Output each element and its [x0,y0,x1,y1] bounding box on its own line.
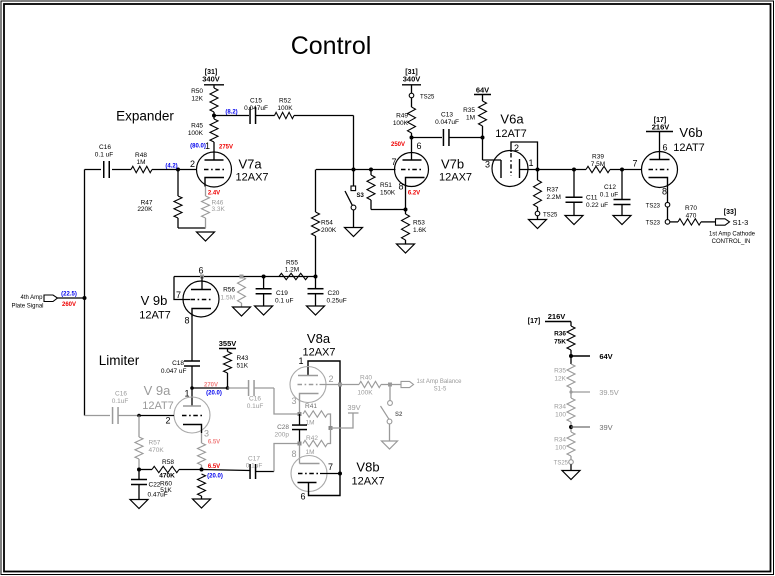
svg-text:0.1 uF: 0.1 uF [275,298,293,305]
V7b plate [403,159,422,161]
wire left rail [84,170,86,416]
node C13 R35 [481,136,485,140]
svg-text:12AT7: 12AT7 [142,400,174,412]
svg-text:V7b: V7b [441,157,464,172]
svg-text:(22.5): (22.5) [61,292,77,298]
ground ladder [562,471,580,480]
V8b grid [298,473,320,475]
svg-text:R50: R50 [191,88,203,95]
svg-text:7: 7 [391,157,396,167]
wire to V6a cathode [483,159,502,161]
node R41 C28 [298,412,302,416]
node 64V [569,354,573,358]
svg-text:12K: 12K [191,96,203,103]
node V7b plate 250V [410,136,414,140]
svg-text:C18: C18 [172,360,184,367]
svg-text:1.2M: 1.2M [285,267,299,274]
svg-text:[33]: [33] [724,209,736,216]
wire grid V9a [139,415,174,417]
svg-text:R57: R57 [149,440,161,447]
svg-text:7: 7 [632,159,637,169]
svg-text:Plate Signal: Plate Signal [11,304,43,310]
svg-text:1M: 1M [466,115,475,122]
svg-text:Control: Control [291,32,372,60]
svg-text:100K: 100K [357,390,373,397]
svg-text:V8b: V8b [356,460,379,475]
svg-text:S1-5: S1-5 [434,387,447,393]
node R57 [137,414,141,418]
svg-text:100K: 100K [188,130,204,137]
svg-text:1M: 1M [305,449,314,456]
svg-text:R70: R70 [685,205,697,212]
svg-text:R54: R54 [321,220,333,227]
node R42 loop [329,426,333,430]
svg-text:R35: R35 [554,368,566,375]
node R58 C22 [137,468,141,472]
V6b plate [650,159,670,161]
svg-text:V 9b: V 9b [141,293,168,308]
V6a cathode [500,160,502,178]
svg-text:6: 6 [662,143,667,153]
wire V6a plate to C11 [538,169,587,171]
V6a plate [519,159,521,178]
svg-text:12K: 12K [554,376,566,383]
capacitor C18 0.047uF [184,360,200,362]
resistor R37 2.2M [537,170,539,181]
V6a grid [510,153,512,176]
svg-text:0.047 uF: 0.047 uF [161,368,187,375]
svg-text:12AX7: 12AX7 [236,172,269,184]
test point TS25 R37 [535,211,540,216]
node 39V [569,425,573,429]
svg-text:(20.0): (20.0) [207,474,223,480]
svg-text:R52: R52 [279,98,291,105]
wire V6b cathode to TS23 [667,187,669,203]
svg-text:275V: 275V [219,145,233,151]
ground C20 [307,306,325,315]
output tag 1st Amp Balance [401,381,414,387]
svg-text:12AX7: 12AX7 [351,476,384,488]
svg-text:3.3K: 3.3K [212,206,226,213]
svg-text:39.5V: 39.5V [599,388,619,397]
svg-text:7: 7 [176,290,181,300]
svg-text:2.4V: 2.4V [208,191,220,197]
svg-text:C13: C13 [441,112,453,119]
svg-text:R56: R56 [223,287,235,294]
triode V8a envelope [290,367,326,403]
V9b cathode [192,309,211,318]
svg-text:51K: 51K [160,487,172,494]
svg-text:C16: C16 [115,391,127,398]
svg-text:0.047uF: 0.047uF [435,119,459,126]
svg-text:0.1 uF: 0.1 uF [95,152,113,159]
test point TS23 lower [665,220,670,225]
V9b plate [191,289,211,291]
svg-text:1: 1 [298,356,303,366]
wire V9b top bus [174,276,316,278]
wire R45 to V7a plate [213,142,215,160]
ground C11 [565,216,583,225]
svg-text:C15: C15 [250,98,262,105]
svg-text:150K: 150K [380,190,396,197]
wire node to C15 [214,115,249,117]
V9a grid [182,415,203,417]
svg-text:V8a: V8a [307,331,331,346]
wire 270V bus [192,387,228,389]
wire grid bus V7b [316,169,396,171]
wire junction to C17 [202,470,251,471]
test point TS25 ladder [569,460,574,465]
svg-text:75K: 75K [554,339,566,346]
ground C12 [613,216,631,225]
node C11 [572,168,576,172]
V9a cathode [183,425,202,434]
svg-text:4th Amp: 4th Amp [20,295,43,301]
triode V8b envelope [291,456,327,492]
node (8.2) [212,114,216,118]
svg-text:100K: 100K [393,120,409,127]
triode V7a envelope [197,152,232,187]
node 270V (20.0) [190,386,194,390]
svg-text:R51: R51 [380,182,392,189]
ground C19 [255,306,273,315]
svg-text:1.5M: 1.5M [221,295,235,302]
svg-text:R40: R40 [360,375,372,382]
svg-text:V7a: V7a [239,157,263,172]
svg-text:6.2V: 6.2V [408,191,420,197]
svg-text:R39: R39 [592,154,604,161]
V8a grid [298,384,320,386]
svg-text:2: 2 [190,159,195,169]
svg-text:355V: 355V [219,339,237,348]
svg-text:8: 8 [398,182,403,192]
node C17 R42 [298,442,302,446]
svg-text:TS25: TS25 [420,95,435,101]
svg-text:0.1uF: 0.1uF [246,463,263,470]
svg-text:S1-3: S1-3 [733,218,749,227]
svg-text:2: 2 [514,143,519,153]
ground S3 [345,228,363,237]
wire V9b cathode to C18 [191,317,193,361]
capacitor C22 0.47uF [138,470,140,480]
svg-text:TS25: TS25 [543,213,558,219]
output tag S1-3 [716,219,730,225]
wire R50 to node [213,112,215,119]
svg-text:1: 1 [528,158,533,168]
junction R51 node [369,168,373,172]
resistor R53 1.6K [405,210,407,215]
svg-text:6.5V: 6.5V [208,440,220,446]
svg-text:1: 1 [184,389,189,399]
svg-text:R45: R45 [191,123,203,130]
svg-text:R34: R34 [554,404,566,411]
node C12 [620,168,624,172]
capacitor C11 0.22uF [573,170,575,198]
wire rail to R50 [213,85,215,88]
svg-text:216V: 216V [548,312,566,321]
svg-text:1: 1 [205,141,210,151]
svg-text:250V: 250V [391,142,405,148]
svg-text:R55: R55 [286,260,298,267]
resistor R49 100K [411,98,413,107]
wire V8a grid out [320,384,360,386]
svg-text:R48: R48 [135,152,147,159]
V9b grid [191,299,213,301]
svg-text:200K: 200K [321,227,337,234]
V6a grid top loop pin 2 [511,142,538,170]
svg-text:6: 6 [300,492,305,502]
switch S2 [389,385,391,401]
svg-text:7: 7 [328,462,333,472]
svg-text:(80.0): (80.0) [190,144,206,150]
V9b pin7 wire [174,277,190,300]
svg-text:C28: C28 [277,424,289,431]
svg-text:3: 3 [204,429,209,439]
svg-text:0.25uF: 0.25uF [327,298,347,305]
svg-text:12AT7: 12AT7 [673,142,705,154]
svg-text:2: 2 [328,374,333,384]
svg-text:64V: 64V [599,352,612,361]
node V6a plate [536,168,540,172]
capacitor C28 200p [299,414,301,425]
svg-text:2.2M: 2.2M [547,194,561,201]
svg-text:6: 6 [198,266,203,276]
V8a cathode [300,394,319,403]
node grid V7a (4.2) [176,168,180,172]
svg-text:Expander: Expander [116,109,174,124]
svg-text:R37: R37 [547,187,559,194]
svg-text:39V: 39V [347,403,360,412]
capacitor C13 0.047uF [412,137,443,139]
V6b grid [649,169,671,171]
wire input to rail [58,297,85,299]
ground R37 [529,220,547,229]
triode V6a envelope [492,151,528,187]
svg-text:340V: 340V [202,75,220,84]
svg-text:340V: 340V [403,75,421,84]
capacitor C16 0.1uF mid [248,380,250,396]
svg-text:Limiter: Limiter [99,353,140,368]
V8b plate [298,482,317,484]
ground V7a cathode [197,232,215,241]
switch S3 [353,170,355,187]
svg-text:C19: C19 [276,290,288,297]
triode V9a envelope [174,397,210,433]
svg-text:260V: 260V [62,302,76,308]
tap 39V [331,413,354,428]
svg-text:39V: 39V [599,423,612,432]
node C19 [262,275,266,279]
V7a plate [205,159,224,161]
junction S3 node [352,168,356,172]
svg-text:C16: C16 [249,396,261,403]
wire V7b cathode [405,187,407,210]
svg-text:S2: S2 [395,412,403,418]
svg-text:TS23: TS23 [646,221,661,227]
V8a plate [298,375,318,377]
svg-text:R43: R43 [237,355,249,362]
ground S2 [382,441,398,449]
svg-text:12AX7: 12AX7 [439,172,472,184]
svg-text:0.1 uF: 0.1 uF [600,192,618,199]
V8b cathode [300,463,320,465]
wire V8b grid feed [299,444,301,464]
svg-text:12AT7: 12AT7 [495,128,527,140]
svg-text:0.1uF: 0.1uF [247,403,264,410]
V6b cathode [649,178,668,187]
svg-text:12AX7: 12AX7 [302,347,335,359]
wire R47 to ground [178,227,206,229]
svg-text:C16: C16 [99,144,111,151]
svg-text:12AT7: 12AT7 [139,310,171,322]
svg-text:(4.2): (4.2) [165,164,177,170]
svg-text:200p: 200p [275,432,290,439]
resistor R70 470 [670,221,678,223]
resistor R57 470K [138,416,140,438]
svg-text:6: 6 [416,141,421,151]
svg-text:C11: C11 [586,195,598,202]
svg-text:3: 3 [291,396,296,406]
capacitor C20 0.25uF [315,277,317,289]
test point TS25 top [409,93,414,98]
svg-text:0.22 uF: 0.22 uF [586,202,608,209]
triode V7b envelope [395,153,429,187]
svg-text:C20: C20 [328,290,340,297]
svg-text:1st Amp Balance: 1st Amp Balance [416,379,462,385]
svg-text:TS25: TS25 [554,461,569,467]
ground R53 [397,244,415,253]
svg-text:1M: 1M [136,159,145,166]
svg-text:(8.2): (8.2) [225,110,237,116]
node 39.5V [569,390,572,393]
svg-text:V6a: V6a [500,112,524,127]
wire V8b grid out [320,473,340,475]
svg-text:R58: R58 [162,459,174,466]
svg-text:64V: 64V [476,86,489,95]
svg-text:C22: C22 [149,482,161,489]
svg-text:1.6K: 1.6K [413,227,427,234]
V7a cathode [205,178,224,187]
svg-text:TS23: TS23 [646,204,661,210]
svg-text:R41: R41 [305,403,317,410]
svg-text:8: 8 [184,316,189,326]
V7b cathode [406,178,425,187]
svg-text:216V: 216V [652,123,670,132]
test point TS23 upper [665,202,670,207]
resistor R46 3.3K cathode [205,187,207,197]
svg-text:V6b: V6b [679,125,702,140]
svg-text:470K: 470K [149,447,165,454]
svg-text:R34: R34 [554,437,566,444]
resistor R51 150K [370,170,372,176]
ground C22 [130,500,148,509]
node C20 [314,275,318,279]
triode V6b envelope [642,152,678,188]
svg-text:2: 2 [165,416,170,426]
svg-text:R36: R36 [554,331,566,338]
resistor R47 220K [177,170,179,197]
svg-text:CONTROL_IN: CONTROL_IN [712,239,751,245]
V7a grid [204,169,226,171]
V7b grid [401,169,423,171]
svg-text:C12: C12 [604,184,616,191]
svg-text:3: 3 [485,160,490,170]
svg-text:0.1uF: 0.1uF [112,398,129,405]
node R60 (20.0) [200,468,204,472]
svg-text:R53: R53 [413,220,425,227]
svg-text:100: 100 [555,412,566,419]
svg-text:100K: 100K [277,105,293,112]
svg-text:220K: 220K [137,206,153,213]
V9a plate [183,405,201,407]
capacitor C19 0.1uF [263,277,265,289]
svg-text:1st Amp Cathode: 1st Amp Cathode [709,232,756,238]
V9a cathode resistor [201,433,203,443]
svg-text:8: 8 [291,449,296,459]
resistor R56 1.5M [240,275,244,279]
svg-text:S3: S3 [357,193,365,199]
wire R52 to V7b grid bus [294,115,354,117]
svg-text:470K: 470K [159,473,175,480]
svg-text:V 9a: V 9a [144,383,172,398]
V9b pin6 tap [200,275,204,279]
svg-text:100: 100 [555,445,566,452]
resistor R54 200K [315,170,317,213]
wire V8a cathode down [299,402,301,414]
svg-text:(20.0): (20.0) [206,391,222,397]
triode V9b envelope [183,281,219,317]
svg-text:[17]: [17] [528,318,540,325]
ground R60 [193,499,211,508]
svg-text:R35: R35 [463,107,475,114]
svg-text:8: 8 [662,187,667,197]
ground R56 [233,307,251,316]
svg-text:C17: C17 [248,456,260,463]
svg-text:51K: 51K [237,363,249,370]
